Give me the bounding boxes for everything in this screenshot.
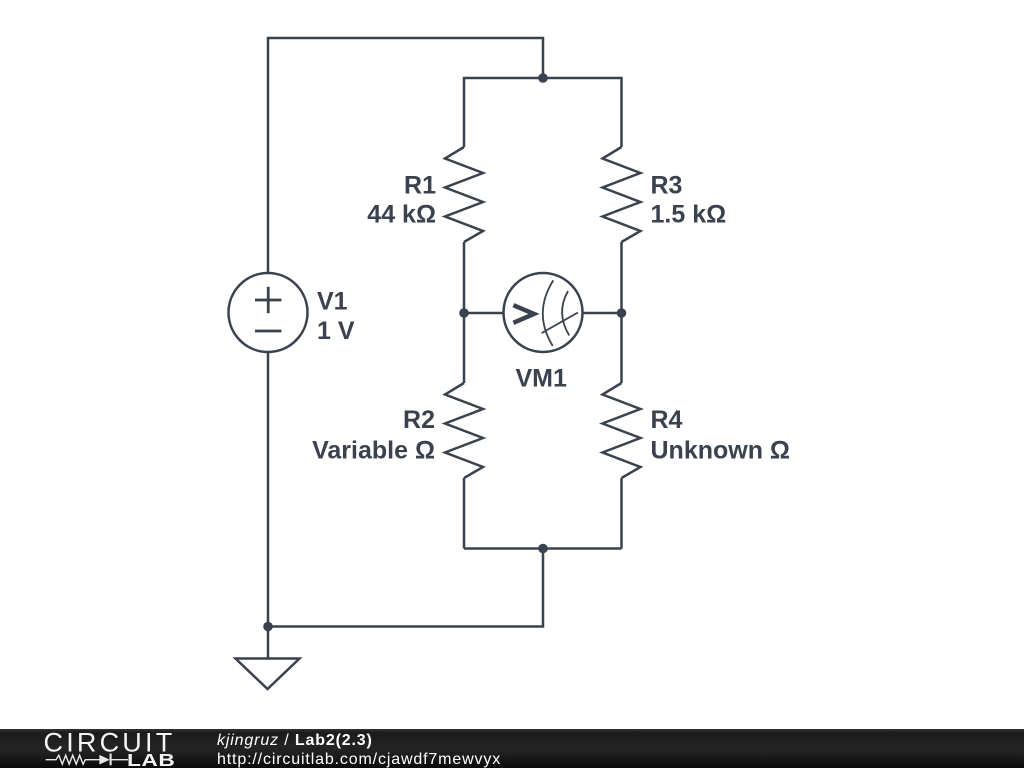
svg-text:Variable Ω: Variable Ω — [312, 436, 435, 464]
svg-text:R3: R3 — [651, 171, 683, 199]
svg-text:VM1: VM1 — [516, 365, 568, 393]
svg-text:LAB: LAB — [127, 751, 175, 768]
svg-text:1.5 kΩ: 1.5 kΩ — [651, 201, 727, 229]
svg-text:1 V: 1 V — [317, 317, 355, 345]
svg-text:R2: R2 — [403, 406, 435, 434]
svg-text:V1: V1 — [317, 287, 348, 315]
svg-text:Unknown Ω: Unknown Ω — [651, 436, 790, 464]
svg-text:44 kΩ: 44 kΩ — [367, 201, 436, 229]
svg-text:R4: R4 — [651, 406, 683, 434]
svg-text:R1: R1 — [404, 171, 436, 199]
